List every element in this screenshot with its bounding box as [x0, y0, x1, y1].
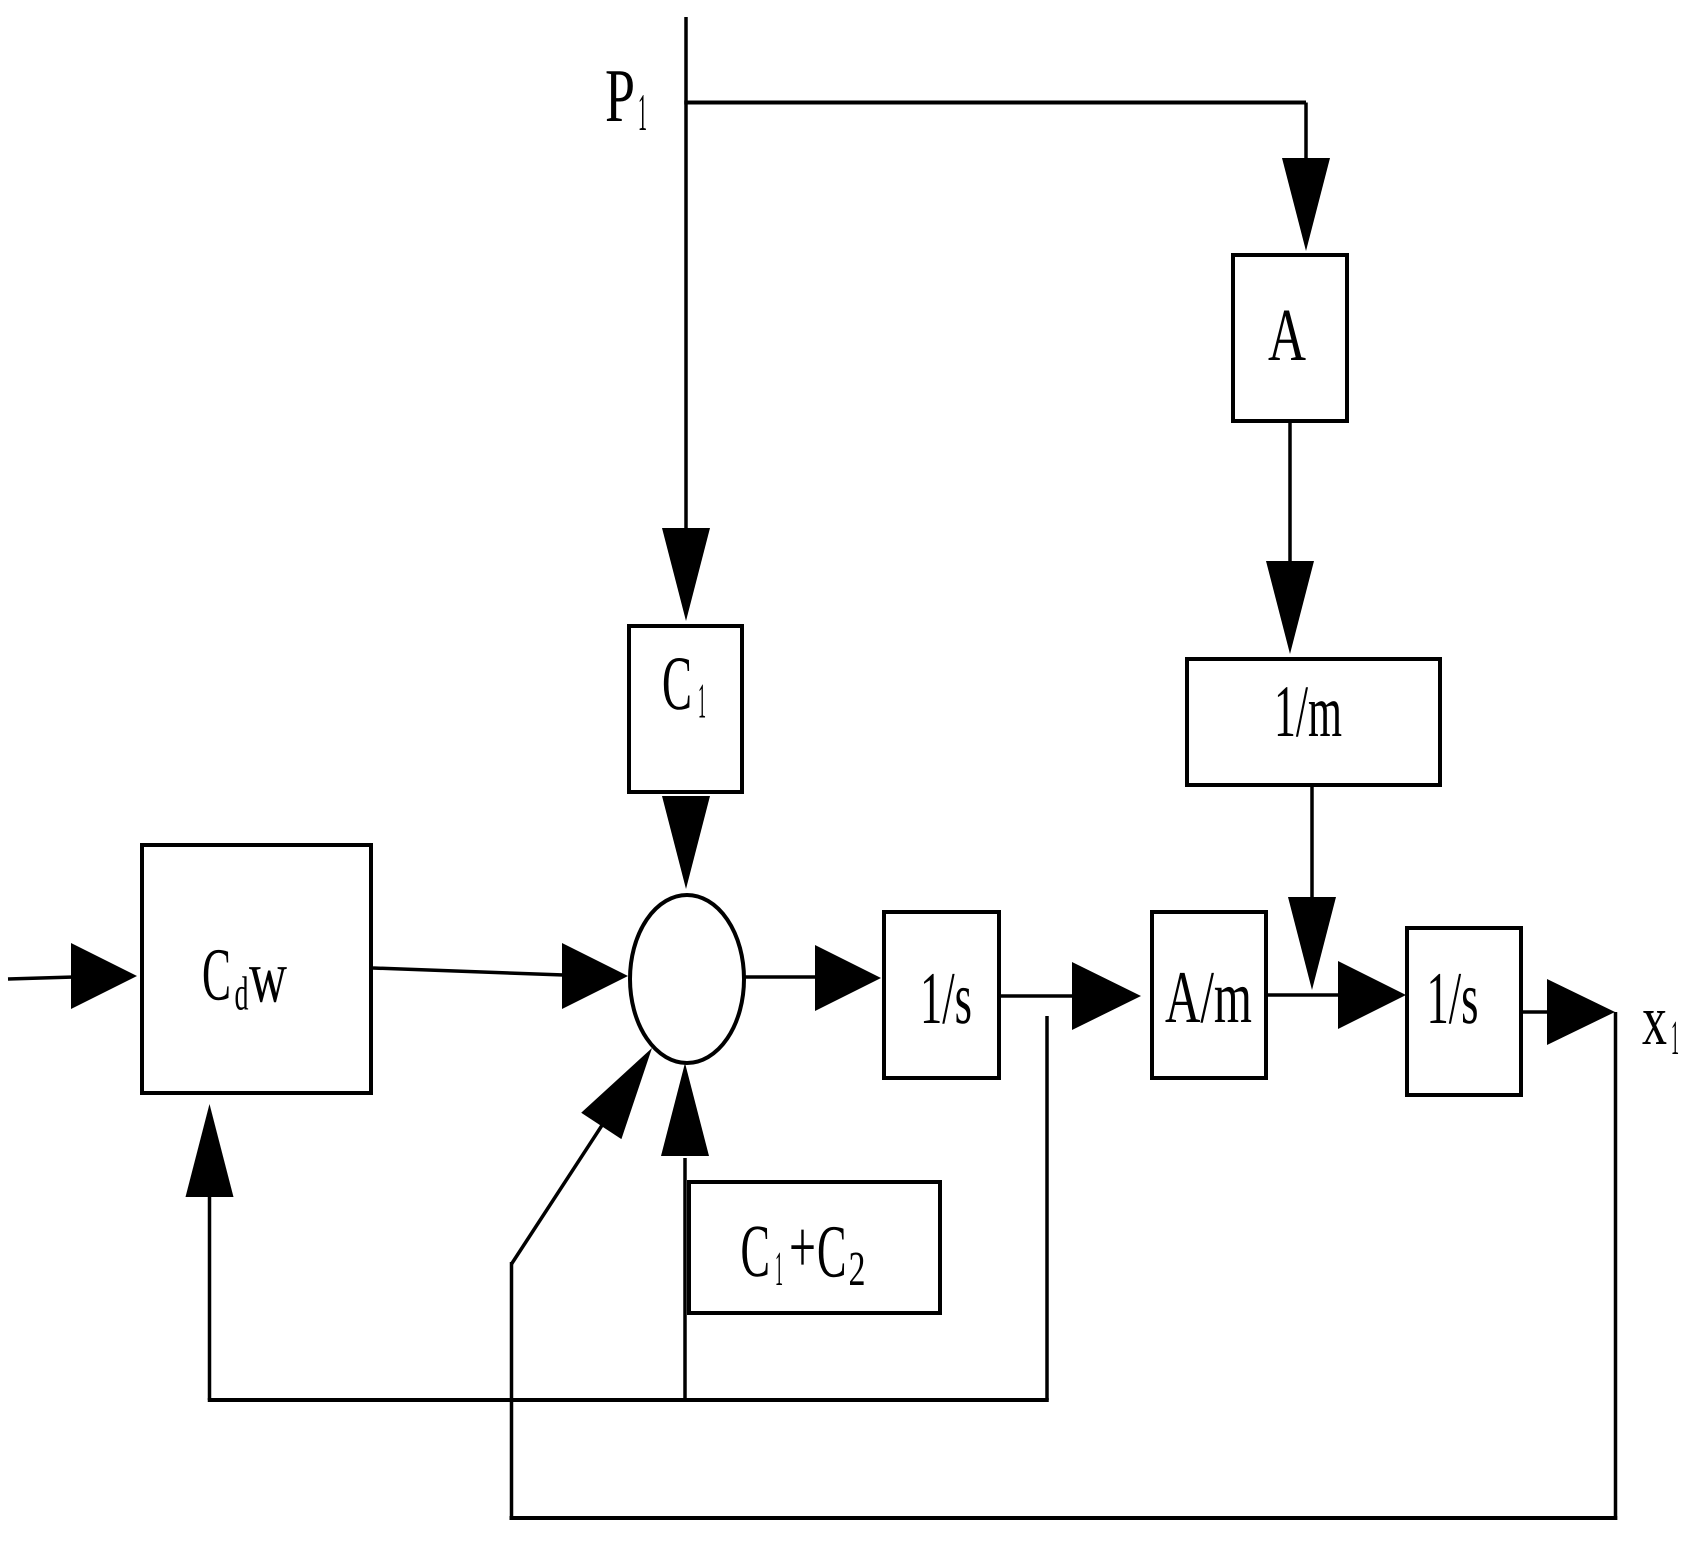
wire system input	[8, 977, 74, 979]
arrowhead into summing junction left	[562, 943, 628, 1009]
summing junction	[630, 895, 744, 1063]
svg-text:C: C	[662, 640, 692, 726]
arrowhead into block Cdw	[71, 943, 137, 1009]
block 1/m	[1187, 659, 1440, 785]
wire x1 feedback diagonal	[512, 1110, 613, 1264]
svg-text:1: 1	[638, 84, 647, 142]
wire P1 vertical	[684, 17, 688, 528]
svg-text:1: 1	[775, 1241, 783, 1296]
svg-text:1: 1	[1671, 1010, 1679, 1065]
wire Cdw to summing junction	[373, 968, 564, 975]
block Cdw	[142, 845, 371, 1093]
svg-text:C: C	[202, 934, 231, 1017]
block 1/s second	[1407, 928, 1521, 1095]
svg-text:+: +	[789, 1206, 816, 1289]
wire x1 feedback bottom horizontal	[510, 1516, 1618, 1520]
svg-text:1/s: 1/s	[920, 958, 972, 1040]
wire A/m to 1/s second	[1268, 993, 1341, 997]
wire 1/m down to junction	[1310, 787, 1314, 897]
arrowhead into block 1/s second	[1338, 961, 1406, 1029]
svg-text:C: C	[741, 1210, 771, 1293]
arrowhead to output x1	[1547, 979, 1615, 1045]
block A/m	[1152, 912, 1266, 1078]
block C1	[629, 626, 742, 792]
arrowhead into block C1	[662, 528, 710, 621]
arrowhead into block 1/s first	[815, 945, 881, 1011]
svg-text:d: d	[235, 968, 249, 1021]
wire summing junction to 1/s	[744, 975, 818, 979]
svg-text:x: x	[1642, 980, 1667, 1060]
svg-text:C: C	[817, 1211, 847, 1294]
block A	[1233, 255, 1347, 421]
arrowhead into block 1/m	[1266, 561, 1314, 654]
arrowhead into block Cdw bottom	[186, 1104, 234, 1197]
node x1 label	[1642, 980, 1679, 1065]
arrowhead into block A/m	[1072, 962, 1141, 1030]
wire feedback up into Cdw	[208, 1194, 212, 1400]
svg-text:A/m: A/m	[1165, 957, 1252, 1039]
wire feedback up into summing junction bottom	[683, 1158, 687, 1400]
arrowhead into summing junction bottom	[661, 1063, 709, 1156]
svg-text:1/s: 1/s	[1427, 958, 1479, 1040]
wire P1 branch horizontal	[684, 101, 1306, 105]
wire A to 1/m	[1288, 423, 1292, 562]
wire branch drop to A	[1304, 103, 1308, 161]
wire 1/s second output	[1523, 1010, 1549, 1014]
svg-text:1/m: 1/m	[1274, 671, 1342, 753]
wire x1 feedback left vertical	[510, 1262, 514, 1520]
svg-text:P: P	[605, 54, 635, 138]
block C1+C2	[689, 1182, 940, 1313]
arrowhead into block A	[1282, 158, 1330, 251]
svg-text:A: A	[1268, 294, 1306, 377]
wire 1/s to A/m	[1001, 994, 1074, 998]
block 1/s first	[884, 912, 999, 1078]
svg-text:1: 1	[698, 673, 706, 729]
svg-text:w: w	[249, 936, 287, 1019]
wire feedback horizontal to Cdw	[208, 1398, 1049, 1402]
node P1 label	[605, 54, 647, 142]
arrowhead C1 into summing junction	[662, 796, 710, 889]
wire x1 feedback down	[1614, 1012, 1618, 1520]
arrowhead onto junction node	[1288, 897, 1336, 990]
wire velocity tap down	[1045, 1016, 1049, 1400]
svg-text:2: 2	[849, 1241, 866, 1296]
arrowhead diagonal into summing junction	[581, 1048, 652, 1139]
